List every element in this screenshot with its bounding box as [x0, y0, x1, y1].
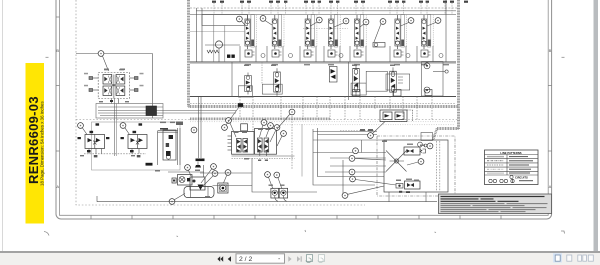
bank mid rail [190, 61, 456, 63]
motor M1 outer [218, 183, 228, 193]
leader S5 [360, 24, 364, 27]
solenoid A1 marks [237, 140, 241, 152]
compartment labels [245, 64, 449, 66]
legend table LINE PATTERNS [485, 150, 539, 185]
callout column pg3 [349, 169, 355, 175]
L3 housing [351, 83, 366, 95]
oil cooler cylinder [184, 187, 214, 198]
wire center rect [252, 158, 317, 192]
leader pg4 [355, 180, 396, 186]
U1 tails [111, 99, 113, 104]
return wire drop left [96, 196, 98, 202]
system boundary dashed box [76, 0, 365, 205]
relief cartridge blob [238, 103, 243, 107]
spool S6 [395, 15, 407, 50]
accumulator box [422, 62, 444, 97]
hatched stub diagonal [433, 129, 437, 141]
leader c7 [277, 136, 282, 146]
L4 housing [386, 74, 410, 90]
lower spool L3 [353, 64, 360, 96]
callout c2 [226, 118, 232, 124]
callout S4 [343, 18, 349, 24]
lower spool L4 [390, 67, 397, 96]
boundary dashed line mid [76, 119, 190, 121]
micro labels [80, 65, 425, 198]
dashed rail below bank [190, 103, 455, 105]
leader sb [373, 122, 386, 134]
motor M1 inner [219, 185, 226, 192]
U1 cell top-right [116, 75, 125, 85]
callout pg5 [342, 193, 348, 199]
drop wires below bank [240, 97, 432, 133]
callout S7 [435, 18, 441, 24]
label bottom [406, 179, 412, 181]
bank top dashed bus [190, 7, 458, 9]
port comb left [228, 136, 232, 150]
L1 housing [238, 86, 252, 97]
lower-left valve arrows [331, 69, 336, 79]
box1 circle [179, 177, 185, 183]
pilot manifold box [96, 104, 163, 119]
leader pg2 [355, 158, 386, 160]
leader w1 [189, 170, 192, 176]
wire upper-left horizontal [76, 53, 153, 55]
U1 side ports [89, 77, 138, 92]
svg-text:B: B [549, 48, 552, 53]
wire center rect2 [313, 129, 375, 185]
hatched stub lower right [437, 127, 459, 130]
leader w5 [174, 194, 185, 200]
bottom marks [399, 191, 402, 193]
solenoid B2 marks [265, 139, 269, 152]
feed wires [313, 153, 386, 173]
svg-text:RENR6609-03: RENR6609-03 [26, 96, 41, 184]
return bus lines [98, 107, 236, 116]
spool S1 [245, 15, 257, 50]
relief blob row [227, 55, 235, 58]
lower spool L1 [245, 73, 252, 95]
solenoid drain valve box2 [190, 177, 205, 190]
solenoid A2 marks [243, 140, 247, 152]
callout S6 [408, 18, 414, 24]
callout S2 [260, 16, 266, 22]
callout c7 [281, 131, 287, 137]
check valve block [373, 43, 385, 48]
callout p2 [274, 172, 280, 178]
drive circle2 [424, 144, 427, 147]
lower spool L2 [274, 68, 281, 96]
scrollbar right [594, 0, 599, 251]
spring pair [207, 50, 219, 53]
travel group box [92, 122, 181, 170]
callout pg mid [418, 159, 424, 165]
P1 tail [275, 196, 278, 202]
accumulator A1 dot [426, 65, 428, 67]
filter F1 [146, 106, 157, 116]
bottom cartridge marks [407, 183, 414, 187]
U1 tail marks [110, 100, 113, 102]
accumulator A2 dot [426, 89, 428, 91]
feed wire upper [313, 139, 384, 141]
leader S1 [242, 21, 246, 25]
first page ◀◀ [217, 256, 220, 261]
mid rail second line [190, 63, 456, 65]
compartment gauges [261, 54, 443, 58]
spool S5 [354, 15, 366, 50]
leader U3 [125, 128, 130, 135]
svg-text:A: A [549, 184, 552, 189]
wire y173 [200, 172, 252, 174]
box1 cross [180, 177, 184, 181]
main return wire [97, 201, 437, 203]
top cartridge valve [404, 147, 420, 155]
small box below hatch [421, 133, 433, 141]
callout c5 [268, 123, 274, 129]
solenoid A2 [243, 139, 248, 153]
label top [407, 144, 413, 146]
U1 tail2 [118, 99, 120, 104]
wire x361 [361, 140, 363, 153]
drawing border inner [60, 0, 549, 215]
callout sb [368, 133, 374, 139]
node callout on wire [98, 51, 104, 57]
P1 dot [274, 192, 276, 194]
callout S3 [316, 17, 322, 23]
solenoid A1 [237, 139, 242, 153]
solenoid tower U4 [158, 122, 184, 166]
spool S4 [328, 15, 340, 50]
drawing border outer [56, 0, 552, 219]
tank T1 [196, 159, 205, 162]
leader p2 [278, 178, 282, 189]
U1 cell bottom-right [116, 86, 125, 96]
tank pedestal stem [197, 162, 199, 166]
pressure switch [146, 163, 153, 166]
leader w3 [203, 176, 213, 186]
callout column pg1 [353, 148, 359, 154]
P2 tail [283, 196, 286, 202]
pedestal base [195, 165, 201, 168]
next view icon (lighter) [318, 255, 325, 263]
check valve circle [374, 43, 378, 47]
aux valve small box [172, 178, 176, 183]
callout S5 [363, 19, 369, 25]
bank top rail [190, 14, 456, 16]
leader c5 [266, 128, 269, 137]
U1 cell top-left marks [104, 77, 107, 82]
leader c6 [270, 130, 276, 142]
faint rail [190, 31, 245, 33]
callout c8 [289, 109, 295, 115]
yellow label ribbon [26, 63, 45, 224]
wire y185.5 [213, 185, 253, 187]
bottom cartridge aux [396, 184, 403, 189]
X node circle [394, 159, 398, 163]
cluster bottom rail [232, 155, 295, 157]
callout w2 [211, 164, 217, 170]
cylinder wall2 [207, 187, 209, 198]
accumulator A1 [424, 63, 430, 69]
label leader drops [214, 3, 452, 15]
callout w4 [225, 170, 231, 176]
X crossing wires [386, 151, 407, 172]
bottom cartridge aux dot [398, 185, 400, 187]
leader S7 [427, 23, 436, 27]
callout w1 [185, 165, 191, 171]
lower-left valve [329, 67, 337, 83]
M1 dot [222, 187, 225, 190]
spool S2 [272, 15, 284, 50]
bottom marks2 [406, 191, 410, 193]
box2 funnel [198, 185, 204, 191]
last ▶▶ disabled [297, 256, 300, 261]
wire x302 [301, 124, 303, 177]
leader mid [374, 24, 381, 42]
bank left internals: rails [196, 8, 198, 62]
vertical dash pair right [437, 141, 440, 191]
L2 housing [262, 84, 282, 94]
bank left internals: rail2 [201, 8, 203, 62]
spool S7 [421, 15, 433, 50]
accumulator A2 [424, 87, 430, 93]
drive circle [418, 142, 423, 147]
U1 pilot drop [114, 99, 116, 157]
valve bank hatched edge left [187, 0, 190, 107]
aux valve dot [173, 180, 175, 182]
svg-text:2 / 2: 2 / 2 [239, 256, 252, 263]
bank bottom component 1 [353, 90, 361, 97]
leader to pilot valve [103, 56, 109, 71]
box1 blob [187, 178, 190, 181]
callout c4 [261, 120, 267, 126]
dashed y28 [303, 28, 348, 30]
box2 dot [193, 180, 196, 183]
callout c6 [274, 125, 280, 131]
bank right rail [445, 0, 447, 62]
dashed pilot line [340, 130, 377, 132]
boundary terminal [445, 70, 448, 73]
dashed tank rail [84, 153, 146, 155]
callout c1 [191, 127, 197, 133]
U1 cell bottom-left [103, 86, 112, 96]
notes box [439, 194, 552, 214]
wire to boundary [433, 71, 445, 73]
manifold box B [255, 129, 277, 155]
dashed drop x292 [291, 116, 293, 170]
travel pilot valve U2 [78, 123, 110, 157]
bank lower rail [190, 96, 456, 98]
leader pg5 [348, 186, 384, 194]
leader S6 [401, 23, 409, 27]
leader w4 [224, 175, 227, 183]
spool S3 [305, 15, 317, 50]
wire into cluster [168, 165, 204, 177]
svg-text:A: A [56, 184, 59, 189]
U1 cell bottom-right marks [120, 88, 123, 93]
rail x348 [348, 62, 350, 100]
cluster bottom dashes [232, 157, 295, 159]
travel pilot valve U3 [121, 123, 148, 157]
pilot filter valve box1 [178, 175, 193, 186]
pump group tails [389, 192, 426, 202]
cylinder wall1 [190, 187, 192, 198]
bank upper rail [196, 10, 456, 12]
pump group solid box [384, 140, 448, 192]
callout w5 [169, 199, 175, 205]
specks above pump group [360, 129, 365, 131]
dashed x262 [261, 62, 263, 84]
U1 cell top-left [103, 75, 112, 85]
specks above pump group2 [368, 129, 373, 131]
gauge stem [218, 48, 220, 62]
callout p1 [265, 172, 271, 178]
U1 center tees [112, 85, 116, 86]
solenoid block center-right [380, 110, 413, 122]
border zone ticks sides [56, 17, 552, 151]
callout w3 [212, 171, 218, 177]
callout S1 [237, 16, 243, 22]
P2 circle [281, 190, 286, 195]
next ▶ disabled [288, 256, 291, 261]
gauge link [205, 44, 240, 46]
leader c2 [230, 123, 236, 137]
stray dash marks [44, 57, 565, 236]
valve bank hatched edge right [457, 0, 460, 129]
M1 circle [220, 185, 226, 191]
P2 dot [282, 192, 284, 194]
feed pair upper [313, 132, 377, 135]
page field [236, 254, 285, 263]
bank bottom component 2 [394, 90, 402, 97]
gauge G1 [215, 41, 222, 48]
leader S3 [311, 22, 318, 26]
U1 pilot drop2 [115, 104, 117, 157]
wire vertical x152 [152, 54, 154, 119]
border zone ticks bottom [91, 215, 501, 219]
svg-text:18 Page, Dimension: 54 Inches: 18 Page, Dimension: 54 Inches x 36 Inche… [40, 101, 45, 186]
U1 center stem [113, 75, 115, 99]
window left edge line [2, 0, 3, 251]
compartment valve glyphs [245, 50, 431, 57]
pilot manifold center cluster [228, 124, 295, 161]
wire x343 [342, 160, 344, 196]
white rect between [366, 71, 387, 91]
small component above [241, 124, 248, 131]
top cartridge marks [407, 149, 414, 153]
main pump group dash-dot box [377, 136, 455, 196]
leader c8 [277, 114, 290, 129]
toolbar top border [0, 251, 600, 253]
manifold box A [232, 132, 255, 155]
B stems [259, 152, 261, 156]
solenoid B1 marks [258, 139, 262, 152]
callout column pg4 [350, 176, 356, 182]
page layout icons bottom-right [553, 253, 562, 262]
prev view icon [306, 255, 313, 263]
callout c3 [222, 125, 228, 131]
pump P1 [271, 188, 279, 198]
leader S4 [334, 23, 344, 27]
bottom cartridge valve [405, 181, 421, 189]
pilot control valve U1 dashed box [98, 73, 129, 99]
callout pg right [427, 143, 433, 149]
svg-text:B: B [56, 48, 59, 53]
pump P2 [279, 188, 287, 198]
callout column pg2 [349, 156, 355, 162]
leader S2 [265, 21, 272, 26]
rail x232 [231, 62, 233, 97]
wire center rect3 [318, 128, 385, 177]
callout U2 [78, 123, 84, 129]
return bus vertical [199, 97, 202, 158]
U1 cell top-right marks [120, 77, 123, 82]
P1 circle [272, 190, 277, 195]
bank bottom component 3 [425, 90, 432, 96]
valve bank hatched edge bottom [189, 105, 459, 108]
top port labels [212, 1, 468, 3]
leader p1 [269, 177, 274, 189]
prev page ◀ [228, 256, 231, 261]
top cartridge spring [420, 149, 426, 153]
zone letters [56, 48, 551, 189]
leader w2 [201, 169, 212, 183]
leader blob [226, 107, 239, 125]
inlet verticals [213, 15, 215, 63]
callout U3 [120, 123, 126, 129]
leader pg mid [407, 162, 418, 165]
solenoid B2 [264, 138, 269, 152]
L4 port comb [398, 77, 403, 83]
callout mid [380, 19, 386, 25]
bank compartment walls [240, 46, 433, 62]
solenoid B1 [258, 138, 263, 152]
leader c4 [260, 125, 263, 137]
inlet section box [202, 15, 248, 26]
leader U2 [82, 128, 87, 135]
toolbar background [0, 253, 600, 265]
U1 cell bottom-left marks [104, 88, 107, 93]
